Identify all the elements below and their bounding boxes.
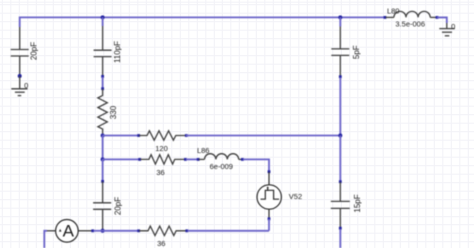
pin tick C2 bottom (101, 75, 104, 78)
pin tick L86 right (241, 158, 244, 161)
node C1-ground junction (18, 74, 22, 78)
wire top rail right of L80 (437, 16, 447, 18)
label 36 (R4) (157, 239, 165, 248)
pin tick V52 top (268, 170, 271, 173)
pin tick R3 left (138, 158, 141, 161)
wire drop to C3 (339, 17, 341, 26)
wire top rail left (20, 16, 384, 18)
pin tick R2 right (185, 134, 188, 137)
pin tick R4 right (185, 229, 188, 232)
label 20pF (C4) (113, 197, 122, 215)
label 5pF (352, 45, 361, 59)
svg-text:A: A (63, 221, 75, 240)
label 330 (109, 105, 118, 119)
label L80 (387, 6, 400, 15)
ground G2 (439, 23, 455, 36)
svg-text:120: 120 (155, 144, 168, 153)
node x=102.6 y=135.5 (101, 134, 105, 138)
wire node to C5 (339, 136, 341, 182)
capacitor C2 110pF (94, 26, 112, 76)
wire drop to C2 (102, 17, 104, 26)
node top rail at x=102.6 (101, 15, 105, 19)
svg-text:20pF: 20pF (30, 42, 39, 60)
pin tick C5 top (339, 180, 342, 183)
wire row1 right (186, 135, 340, 137)
wire row1 left (103, 135, 138, 137)
pin tick C5 bottom (339, 227, 342, 230)
inductor L80 (386, 11, 437, 17)
label L86 (197, 146, 210, 155)
pin tick R3 right (184, 158, 187, 161)
svg-text:110pF: 110pF (113, 41, 122, 63)
svg-text:V52: V52 (289, 192, 302, 201)
label 120 (155, 144, 168, 153)
label 3.5e-006 (395, 20, 425, 29)
node x=102.6 y=159.4 (101, 157, 105, 161)
pin tick L80 left (384, 16, 387, 19)
label 15pF (353, 194, 362, 212)
svg-text:36: 36 (156, 168, 164, 177)
pin tick L80 right (436, 16, 439, 19)
label 36 (R3) (156, 168, 164, 177)
label 6e-009 (210, 162, 233, 171)
pin tick C3 bottom (339, 75, 342, 78)
wire x=102.6 between rows (102, 136, 104, 160)
pin tick L86 left (197, 158, 200, 161)
resistor R2 120 (row1) (139, 131, 185, 140)
wire bottom rail left of R4 (103, 230, 138, 232)
pin tick R1 top (101, 87, 104, 90)
wire row2 left (103, 158, 139, 160)
svg-text:20pF: 20pF (113, 197, 122, 215)
wire C3 to node (339, 78, 341, 136)
wire C2 to R1 (102, 77, 104, 88)
svg-text:L80: L80 (387, 6, 400, 15)
svg-text:L86: L86 (197, 146, 210, 155)
label 0 (left ground) (24, 81, 28, 90)
svg-text:15pF: 15pF (353, 194, 362, 212)
pin tick R2 left (137, 134, 140, 137)
capacitor C1 20pF (11, 27, 29, 76)
resistor R3 36 (row2) (140, 155, 185, 164)
svg-text:3.5e-006: 3.5e-006 (395, 20, 425, 29)
label 20pF (30, 42, 39, 60)
wire x=102.6 row2 to C4 (102, 159, 104, 181)
node x=102.6 y=230.8 (101, 229, 105, 233)
pulse source V52 (257, 172, 281, 218)
label A (63, 221, 75, 240)
inductor L86 (199, 154, 242, 160)
wire R3 to L86 (186, 158, 198, 160)
wire V52 bottom to bottom rail (268, 219, 270, 231)
capacitor C5 15pF (331, 182, 350, 228)
wire ammeter to node (94, 230, 103, 232)
wire left drop to C1 (19, 17, 21, 28)
resistor R4 36 (bottom) (139, 226, 186, 235)
resistor R1 330 (vertical) (98, 89, 107, 134)
wire C5 to bottom edge (339, 229, 341, 248)
svg-text:330: 330 (109, 105, 118, 119)
pin tick C4 top (101, 180, 104, 183)
wire bottom rail right (188, 230, 270, 232)
ground G1 (11, 76, 27, 96)
pin tick ammeter right (91, 229, 94, 232)
svg-text:36: 36 (157, 239, 165, 248)
wire L80 to ground corner (437, 17, 447, 23)
svg-text:5pF: 5pF (352, 45, 361, 59)
node x=340.3 y=135.5 (338, 134, 342, 138)
pin tick R4 left (137, 229, 140, 232)
wire bottom-left drop (44, 231, 47, 248)
svg-text:6e-009: 6e-009 (210, 162, 233, 171)
wire L86 to V52 top (243, 159, 269, 171)
label V52 (289, 192, 302, 201)
ammeter AM1 (47, 220, 92, 243)
pin tick V52 bottom (268, 217, 271, 220)
capacitor C4 20pF (93, 182, 111, 231)
svg-text:0: 0 (24, 81, 28, 90)
capacitor C3 5pF (331, 27, 349, 77)
label 110pF (113, 41, 122, 63)
label 0 (right ground) (451, 22, 455, 31)
svg-text:0: 0 (451, 22, 455, 31)
node top rail at x=340.3 (338, 15, 342, 19)
